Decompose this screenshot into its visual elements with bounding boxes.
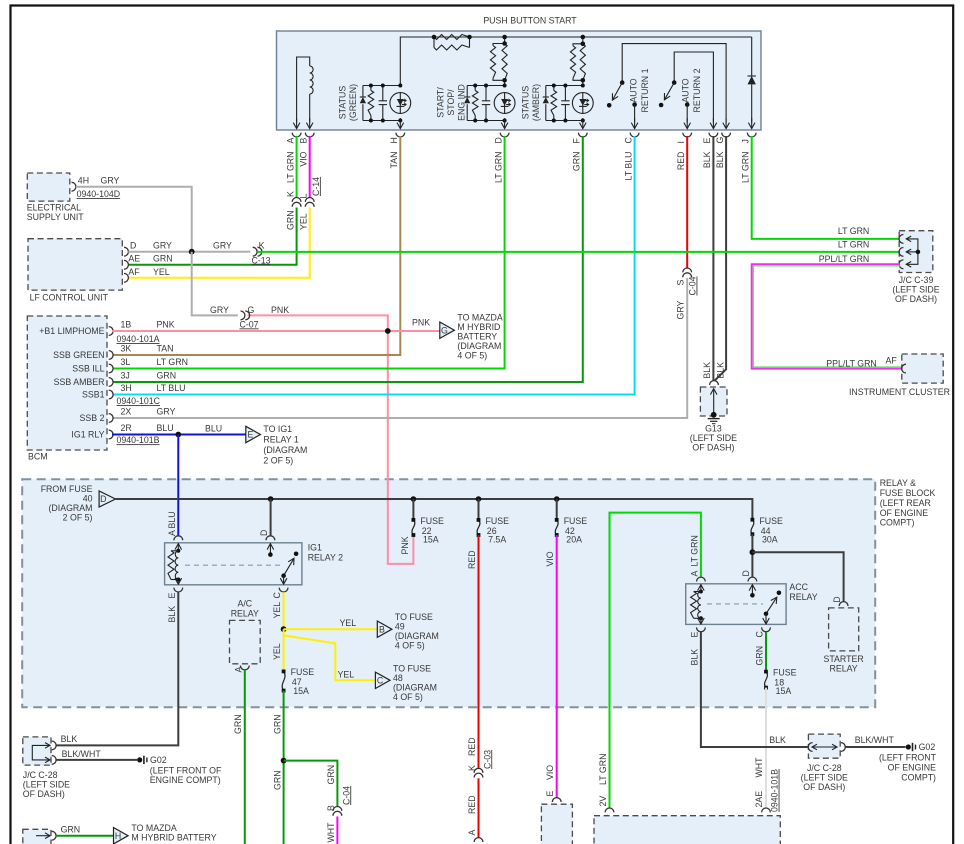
svg-text:(GREEN): (GREEN)	[348, 84, 358, 121]
svg-text:H: H	[115, 831, 121, 841]
svg-text:VIO: VIO	[545, 551, 555, 566]
wire GRN A/C relay pin A down	[244, 670, 246, 844]
wire BLU BCM 2R to arrow E	[112, 434, 246, 436]
svg-text:YEL: YEL	[153, 267, 170, 277]
ACC relay switch	[748, 577, 757, 581]
svg-text:40: 40	[83, 493, 93, 503]
wire GRY LF control unit D to C-13	[128, 251, 250, 253]
svg-text:AUTO: AUTO	[681, 78, 691, 102]
svg-text:GRN: GRN	[61, 824, 81, 834]
fuse 42 20A	[556, 499, 558, 520]
wire LT GRN pin J to J/C C-39	[752, 136, 900, 239]
svg-text:M HYBRID BATTERY: M HYBRID BATTERY	[131, 833, 216, 843]
J/C C-39 internal bus	[907, 239, 918, 264]
svg-text:4 OF 5): 4 OF 5)	[393, 692, 423, 702]
svg-text:FUSE: FUSE	[420, 516, 444, 526]
J/C C-28 right box	[808, 734, 840, 758]
svg-text:M HYBRID: M HYBRID	[457, 322, 500, 332]
wire RED pin I to C-04	[686, 136, 688, 268]
wire BLK IG1 relay 2 pin E to J/C C-28	[174, 588, 183, 592]
wire BLK pin E to ground G13	[712, 136, 714, 381]
svg-text:FROM FUSE: FROM FUSE	[41, 484, 93, 494]
svg-text:A/C: A/C	[237, 599, 252, 609]
svg-text:BLK: BLK	[167, 606, 177, 623]
svg-text:FUSE: FUSE	[291, 667, 315, 677]
svg-text:BLU: BLU	[157, 423, 174, 433]
STATUS (GREEN) LED circuit	[363, 85, 400, 87]
wire VIO fuse 42 down	[556, 535, 558, 798]
svg-text:RETURN 2: RETURN 2	[692, 68, 702, 112]
svg-text:OF ENGINE: OF ENGINE	[888, 763, 937, 773]
svg-text:G: G	[441, 325, 448, 335]
wire GRN to arrow H	[56, 835, 113, 837]
wire fuse 44 to ACC relay and starter relay	[751, 534, 753, 577]
svg-text:RELAY: RELAY	[829, 664, 857, 674]
svg-text:COMPT): COMPT)	[880, 518, 915, 528]
svg-text:BLK: BLK	[715, 362, 725, 379]
svg-text:GRN: GRN	[285, 210, 295, 230]
svg-text:SSB AMBER: SSB AMBER	[54, 377, 105, 387]
svg-text:G02: G02	[919, 742, 936, 752]
A/C RELAY box	[230, 620, 261, 663]
svg-text:C-07: C-07	[240, 319, 259, 329]
relay and fuse block background	[22, 479, 875, 707]
LT GRN pin 2V	[605, 808, 614, 812]
svg-text:RELAY &: RELAY &	[880, 478, 916, 488]
svg-text:RELAY: RELAY	[789, 592, 817, 602]
wire PNK C-07 to junction and down to fuse 22	[248, 315, 388, 331]
wire LT GRN pin D to BCM 3L	[113, 136, 505, 369]
svg-text:RED: RED	[467, 550, 477, 569]
STATUS (AMBER) LED circuit	[546, 85, 583, 87]
svg-text:0940-101A: 0940-101A	[117, 334, 160, 344]
VIO pin E and box	[552, 798, 561, 802]
ACC relay dashed link	[707, 603, 763, 605]
svg-text:LT BLU: LT BLU	[157, 383, 186, 393]
svg-text:OF ENGINE: OF ENGINE	[880, 508, 929, 518]
BCM box	[27, 316, 107, 450]
IG1 RELAY 2 box	[165, 543, 302, 585]
svg-text:J: J	[740, 139, 750, 143]
internal supply rail	[400, 37, 751, 86]
svg-text:C: C	[755, 631, 765, 638]
svg-text:ACC: ACC	[789, 582, 808, 592]
ACC RELAY box	[686, 584, 786, 625]
svg-text:TO FUSE: TO FUSE	[393, 663, 431, 673]
svg-text:GRN: GRN	[326, 765, 336, 785]
svg-text:K: K	[285, 191, 295, 197]
wire LT GRN to ACC relay pin A	[610, 513, 701, 808]
wire GRN branch to C-04 pin B	[284, 761, 338, 807]
svg-text:INSTRUMENT CLUSTER: INSTRUMENT CLUSTER	[849, 387, 950, 397]
svg-text:RED: RED	[676, 152, 686, 171]
svg-text:RELAY: RELAY	[231, 608, 259, 618]
J/C C-39 box	[899, 231, 933, 273]
wire VIO pin B to C-14	[309, 136, 311, 198]
svg-text:RED: RED	[467, 795, 477, 814]
svg-text:STATUS: STATUS	[337, 86, 347, 120]
svg-text:C-04: C-04	[688, 276, 698, 295]
wire GRN fuse 47 down	[283, 691, 285, 844]
connector C-04 pin B	[333, 807, 342, 811]
svg-text:GRY: GRY	[210, 305, 229, 315]
svg-text:PNK: PNK	[157, 320, 175, 330]
svg-text:START/: START/	[435, 87, 445, 118]
svg-text:FUSE BLOCK: FUSE BLOCK	[880, 488, 936, 498]
arrow B TO FUSE 49	[377, 621, 392, 637]
wire TAN pin H to BCM 3K	[113, 136, 400, 355]
svg-text:J/C C-39: J/C C-39	[899, 275, 934, 285]
svg-text:IG1: IG1	[308, 543, 322, 553]
svg-text:LT GRN: LT GRN	[285, 152, 295, 183]
svg-text:(LEFT REAR: (LEFT REAR	[880, 498, 931, 508]
svg-text:IG1 RLY: IG1 RLY	[71, 430, 104, 440]
svg-text:A: A	[467, 830, 477, 836]
svg-text:20A: 20A	[566, 535, 582, 545]
svg-text:ENG IND: ENG IND	[457, 84, 467, 121]
switch AUTO RETURN 1	[622, 44, 726, 123]
svg-text:A: A	[167, 530, 177, 536]
svg-text:J/C C-28: J/C C-28	[23, 770, 58, 780]
svg-text:E: E	[702, 138, 712, 144]
svg-text:PPL/LT GRN: PPL/LT GRN	[826, 358, 877, 368]
IG1 relay 2 dashed link	[185, 564, 281, 566]
svg-text:TAN: TAN	[157, 344, 174, 354]
svg-text:WHT: WHT	[326, 822, 336, 843]
IG1 relay 2 coil	[174, 536, 183, 540]
svg-text:TO MAZDA: TO MAZDA	[131, 823, 176, 833]
ELECTRICAL SUPPLY UNIT box	[27, 173, 70, 201]
ACC relay coil	[697, 577, 706, 581]
svg-text:C-13: C-13	[252, 255, 271, 265]
svg-text:A: A	[689, 571, 699, 577]
svg-text:3J: 3J	[121, 371, 130, 381]
svg-text:PNK: PNK	[271, 305, 289, 315]
svg-text:BLU: BLU	[167, 511, 177, 528]
connector C-13	[253, 247, 257, 256]
resistor pair R3 (parallel, vertical)	[582, 37, 584, 44]
fuse 18 15A	[765, 672, 768, 688]
arrow E TO IG1 RELAY 1	[246, 426, 261, 442]
svg-text:GRY: GRY	[153, 241, 172, 251]
svg-text:48: 48	[393, 673, 403, 683]
svg-text:STATUS: STATUS	[521, 86, 531, 120]
wire LT GRN C-13 to J/C C-39	[258, 251, 900, 253]
svg-text:LT BLU: LT BLU	[623, 152, 633, 181]
BCM pins and labels	[109, 327, 113, 336]
svg-text:F: F	[572, 138, 582, 144]
svg-text:4H: 4H	[78, 175, 89, 185]
connector C-07	[241, 311, 245, 320]
svg-text:SSB GREEN: SSB GREEN	[53, 350, 104, 360]
svg-text:2 OF 5): 2 OF 5)	[263, 456, 293, 466]
junction PNK	[385, 328, 391, 334]
svg-text:LT GRN: LT GRN	[598, 754, 608, 785]
svg-text:3H: 3H	[121, 383, 132, 393]
svg-text:OF DASH): OF DASH)	[23, 789, 65, 799]
svg-text:0940-101C: 0940-101C	[117, 396, 161, 406]
svg-text:(LEFT SIDE: (LEFT SIDE	[23, 779, 70, 789]
svg-text:0940-101B: 0940-101B	[117, 435, 160, 445]
svg-text:RELAY 2: RELAY 2	[308, 553, 343, 563]
wire BLK/WHT to ground G02 right	[845, 746, 905, 748]
svg-text:C: C	[377, 675, 384, 685]
junction BLU	[175, 432, 181, 438]
svg-text:(DIAGRAM: (DIAGRAM	[49, 503, 93, 513]
svg-text:GRY: GRY	[157, 407, 176, 417]
svg-text:VIO: VIO	[545, 765, 555, 780]
instrument cluster box	[902, 354, 943, 383]
WHT pin 2AE	[762, 808, 771, 812]
svg-text:YEL: YEL	[340, 618, 357, 628]
svg-text:LT GRN: LT GRN	[838, 240, 869, 250]
svg-text:BLK/WHT: BLK/WHT	[62, 749, 102, 759]
svg-text:FUSE: FUSE	[773, 667, 797, 677]
svg-text:STARTER: STARTER	[823, 654, 863, 664]
svg-text:(DIAGRAM: (DIAGRAM	[393, 683, 437, 693]
svg-text:ENGINE COMPT): ENGINE COMPT)	[150, 775, 221, 785]
fuse 22 15A	[412, 499, 414, 520]
diode D1 (to pin J)	[751, 37, 753, 76]
svg-text:(AMBER): (AMBER)	[531, 84, 541, 121]
svg-text:(LEFT SIDE: (LEFT SIDE	[690, 433, 737, 443]
svg-text:GRN: GRN	[157, 371, 177, 381]
svg-text:BLK: BLK	[61, 734, 78, 744]
svg-text:GRY: GRY	[676, 300, 686, 319]
wire GRY junction down to C-07	[192, 252, 238, 316]
coil (pins A-B)	[297, 57, 310, 123]
svg-text:D: D	[130, 241, 136, 251]
svg-text:G: G	[715, 137, 725, 144]
svg-text:TO MAZDA: TO MAZDA	[457, 313, 502, 323]
svg-text:RETURN 1: RETURN 1	[640, 68, 650, 112]
svg-text:B: B	[379, 624, 385, 634]
fuse 47 15A	[282, 671, 285, 690]
svg-text:C: C	[623, 137, 633, 144]
svg-text:+B1 LIMPHOME: +B1 LIMPHOME	[39, 326, 104, 336]
svg-text:YEL: YEL	[338, 669, 355, 679]
wire YEL C-14 to LF control unit AF	[128, 208, 309, 278]
svg-text:15A: 15A	[293, 686, 309, 696]
svg-text:FUSE: FUSE	[759, 516, 783, 526]
svg-text:YEL: YEL	[272, 602, 282, 619]
svg-text:SSB1: SSB1	[82, 390, 105, 400]
wire IG1 relay 2 pin D drop	[270, 499, 272, 536]
connector pins of push button start (arrows, receptacles, letters)	[296, 118, 298, 129]
arrow G TO MAZDA M HYBRID BATTERY	[440, 322, 455, 338]
svg-text:0940-101B: 0940-101B	[770, 769, 780, 812]
svg-text:A: A	[233, 667, 243, 673]
svg-text:YEL: YEL	[272, 643, 282, 660]
svg-text:B: B	[326, 805, 336, 811]
svg-text:BLK: BLK	[715, 151, 725, 168]
svg-text:S: S	[676, 280, 686, 286]
wire WHT below C-04 pin B	[336, 817, 338, 844]
svg-text:COMPT): COMPT)	[901, 772, 936, 782]
wire LT BLU pin C to BCM 3H	[113, 136, 635, 395]
svg-text:2V: 2V	[598, 796, 608, 807]
connector C-03 pin K on RED	[474, 768, 483, 772]
svg-text:GRN: GRN	[272, 714, 282, 734]
ground G02 left	[137, 757, 142, 762]
wire WHT fuse 18 down to 2AE	[765, 688, 767, 808]
bus from fuse 40	[116, 499, 753, 520]
svg-text:E: E	[689, 632, 699, 638]
wire RED below C-03	[478, 778, 480, 837]
wire RED fuse 26 down to C-03	[478, 535, 480, 769]
svg-text:30A: 30A	[762, 535, 778, 545]
svg-text:TAN: TAN	[389, 152, 399, 169]
svg-text:TO IG1: TO IG1	[263, 424, 292, 434]
svg-text:15A: 15A	[776, 686, 792, 696]
svg-text:E: E	[167, 593, 177, 599]
resistor pair R2 (parallel, vertical)	[504, 37, 506, 44]
svg-text:49: 49	[395, 621, 405, 631]
svg-text:PPL/LT GRN: PPL/LT GRN	[819, 254, 870, 264]
wire BLK/WHT to ground G02 left	[56, 759, 137, 761]
svg-text:B: B	[298, 138, 308, 144]
svg-text:GRN: GRN	[233, 714, 243, 734]
svg-text:GRN: GRN	[272, 770, 282, 790]
svg-text:C-04: C-04	[341, 786, 351, 805]
svg-text:4 OF 5): 4 OF 5)	[395, 641, 425, 651]
svg-text:PNK: PNK	[412, 318, 430, 328]
push button start switch assembly	[277, 31, 762, 130]
svg-text:OF DASH): OF DASH)	[895, 294, 937, 304]
svg-text:FUSE: FUSE	[486, 516, 510, 526]
svg-text:G: G	[248, 305, 255, 315]
svg-text:GRN: GRN	[153, 254, 173, 264]
connector C-14 pin L	[305, 198, 314, 202]
starter relay box	[829, 608, 859, 651]
svg-text:TO FUSE: TO FUSE	[395, 612, 433, 622]
connector C-14 pin K	[292, 197, 301, 201]
svg-text:STOP/: STOP/	[446, 89, 456, 116]
svg-text:4 OF 5): 4 OF 5)	[457, 351, 487, 361]
svg-text:BLK/WHT: BLK/WHT	[855, 735, 895, 745]
svg-text:RELAY 1: RELAY 1	[263, 435, 298, 445]
svg-text:WHT: WHT	[754, 757, 764, 778]
svg-text:0940-104D: 0940-104D	[77, 189, 121, 199]
svg-text:(LEFT FRONT: (LEFT FRONT	[879, 753, 937, 763]
ground G13	[700, 387, 727, 416]
fuse 44 30A	[751, 520, 754, 535]
svg-text:2 OF 5): 2 OF 5)	[63, 513, 93, 523]
wire BLK ACC relay pin E to J/C C-28	[697, 627, 706, 631]
wire LT GRN pin A to C-14	[296, 136, 298, 198]
svg-text:BLU: BLU	[205, 424, 222, 434]
svg-text:1B: 1B	[121, 320, 132, 330]
svg-text:BCM: BCM	[28, 452, 48, 462]
svg-text:OF DASH): OF DASH)	[692, 443, 734, 453]
svg-text:BLK: BLK	[702, 151, 712, 168]
svg-text:AE: AE	[128, 254, 140, 264]
svg-text:C-03: C-03	[482, 750, 492, 769]
svg-text:(DIAGRAM: (DIAGRAM	[457, 341, 501, 351]
LF CONTROL UNIT box	[28, 239, 122, 290]
junction GRN	[281, 758, 287, 764]
svg-text:VIO: VIO	[298, 151, 308, 166]
junction GRY	[189, 249, 195, 255]
svg-text:AUTO: AUTO	[629, 78, 639, 102]
wide dashed box at bottom	[594, 816, 780, 844]
arrow C TO FUSE 48	[375, 672, 390, 688]
svg-text:LT GRN: LT GRN	[157, 357, 188, 367]
IG1 relay 2 switch	[266, 536, 275, 540]
svg-text:C: C	[272, 592, 282, 599]
svg-text:D: D	[100, 494, 106, 504]
svg-text:(DIAGRAM: (DIAGRAM	[395, 631, 439, 641]
svg-text:H: H	[389, 137, 399, 143]
svg-text:D: D	[832, 596, 842, 602]
svg-text:GRY: GRY	[213, 241, 232, 251]
svg-text:LT GRN: LT GRN	[740, 152, 750, 183]
svg-text:RED: RED	[467, 737, 477, 756]
svg-text:A: A	[285, 138, 295, 144]
svg-text:C-14: C-14	[311, 177, 321, 196]
wire PPL/LT GRN J/C C-39 to instrument cluster	[752, 264, 902, 368]
svg-text:LT GRN: LT GRN	[689, 535, 699, 566]
svg-text:AF: AF	[886, 355, 898, 365]
svg-text:E: E	[247, 430, 253, 440]
arrow H TO MAZDA M HYBRID BATTERY	[114, 828, 129, 844]
svg-text:3K: 3K	[121, 344, 132, 354]
wire PNK BCM 1B to arrow G	[112, 330, 440, 332]
svg-text:D: D	[259, 530, 269, 536]
svg-text:2X: 2X	[121, 407, 132, 417]
svg-text:G02: G02	[150, 755, 167, 765]
wire GRN C-14 to LF control unit AE	[128, 208, 296, 265]
svg-text:D: D	[493, 137, 503, 143]
svg-text:AF: AF	[128, 267, 140, 277]
wire GRN ACC relay pin C to fuse 18	[765, 632, 767, 672]
svg-text:GRY: GRY	[101, 175, 120, 185]
START/STOP/ENG IND LED circuit	[467, 85, 504, 87]
svg-text:SSB ILL: SSB ILL	[72, 364, 104, 374]
svg-text:LF CONTROL UNIT: LF CONTROL UNIT	[30, 293, 109, 303]
svg-text:OF DASH): OF DASH)	[803, 782, 845, 792]
wire GRY C-04 to BCM 2X	[113, 278, 687, 418]
svg-text:(LEFT SIDE: (LEFT SIDE	[892, 285, 939, 295]
fuse 26 7.5A	[478, 499, 480, 520]
wire GRY electrical supply unit to junction	[76, 187, 192, 252]
svg-text:BLK: BLK	[702, 362, 712, 379]
svg-text:SSB 2: SSB 2	[80, 413, 105, 423]
svg-text:GRN: GRN	[572, 152, 582, 172]
svg-text:E: E	[545, 791, 555, 797]
wire YEL IG1 relay 2 pin C down with branches	[283, 592, 285, 629]
svg-text:L: L	[298, 194, 308, 199]
svg-text:BLK: BLK	[689, 649, 699, 666]
svg-text:(LEFT FRONT OF: (LEFT FRONT OF	[150, 766, 222, 776]
svg-text:D: D	[741, 570, 751, 576]
svg-text:3L: 3L	[121, 357, 131, 367]
svg-text:PUSH BUTTON START: PUSH BUTTON START	[483, 16, 577, 26]
svg-text:PNK: PNK	[400, 536, 410, 554]
svg-text:LT GRN: LT GRN	[838, 226, 869, 236]
svg-text:15A: 15A	[423, 535, 439, 545]
svg-text:2R: 2R	[121, 423, 132, 433]
wire BLU junction down to IG1 relay 2 pin A	[177, 435, 179, 536]
svg-text:FUSE: FUSE	[564, 516, 588, 526]
svg-text:I: I	[676, 141, 686, 143]
svg-text:G13: G13	[705, 424, 722, 434]
svg-text:ELECTRICAL: ELECTRICAL	[27, 203, 81, 213]
switch AUTO RETURN 2	[674, 52, 713, 123]
resistor pair R1 (parallel, horizontal)	[434, 35, 470, 40]
ground G02 right	[906, 744, 911, 749]
connector C-04 pin S	[683, 268, 692, 272]
